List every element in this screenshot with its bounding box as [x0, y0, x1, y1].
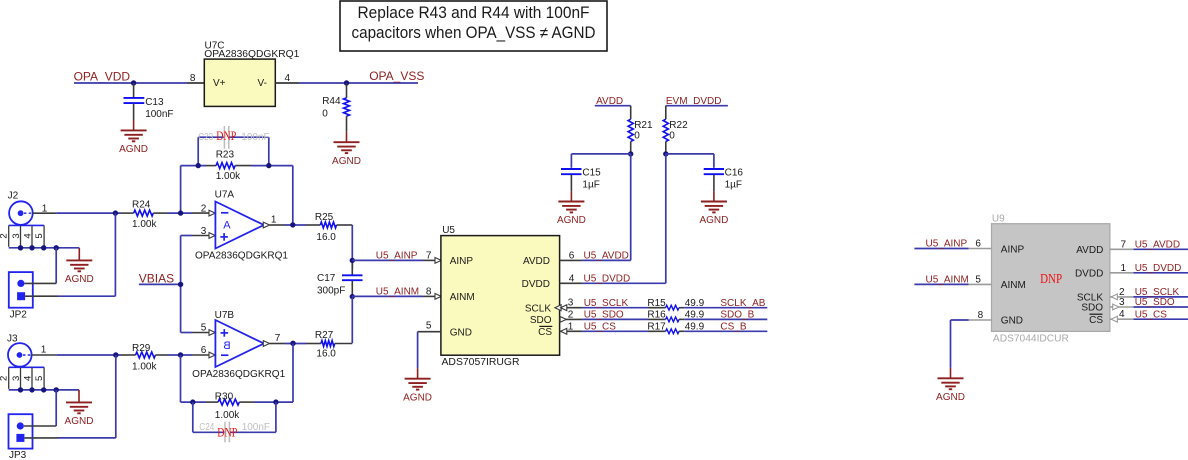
node OPA_VSS junction [344, 80, 349, 85]
svg-text:100nF: 100nF [145, 109, 173, 120]
node C17 top junction [350, 258, 355, 263]
wire AVDD to U5 pin6 [630, 154, 632, 261]
svg-text:U5: U5 [442, 225, 455, 236]
svg-text:SDO_B: SDO_B [720, 310, 754, 321]
svg-text:U5_SDO: U5_SDO [1135, 297, 1175, 308]
svg-text:7: 7 [1121, 239, 1127, 250]
svg-text:U7A: U7A [215, 189, 235, 200]
wire R30 row left [181, 401, 207, 403]
pin name GND of U5 [450, 327, 472, 338]
svg-text:8: 8 [426, 286, 432, 297]
svg-text:AGND: AGND [119, 144, 148, 155]
svg-text:OPA2836QDGKRQ1: OPA2836QDGKRQ1 [192, 369, 285, 380]
pin 8 lead of U7C [187, 73, 204, 84]
connector J3 shield cells [0, 367, 45, 389]
svg-text:OPA2836QDGKRQ1: OPA2836QDGKRQ1 [204, 49, 299, 60]
pin name SCLK of U5 [525, 303, 551, 314]
wire C24 loop right [275, 402, 277, 432]
svg-text:U5_AINP: U5_AINP [376, 251, 418, 262]
svg-text:U5_SDO: U5_SDO [584, 310, 624, 321]
pin 1 of J2 [33, 203, 57, 214]
node R21 junction [628, 151, 633, 156]
wire AVDD stub [595, 105, 631, 107]
svg-text:R15: R15 [647, 298, 666, 309]
net label OPA_VSS [369, 69, 424, 83]
net label EVM_DVDD [666, 96, 722, 107]
wire R25 to AINP node [351, 225, 353, 260]
node J2 shield dots [18, 245, 59, 250]
svg-text:8: 8 [190, 73, 196, 84]
svg-text:6: 6 [201, 345, 207, 356]
svg-text:R25: R25 [315, 212, 334, 223]
pin 4 of U5 [560, 273, 583, 284]
capacitor C13 [124, 83, 174, 120]
svg-text:B: B [223, 340, 230, 352]
wire OPA_VDD rail [74, 82, 187, 84]
pin name AINM of U5 [450, 292, 475, 303]
resistor R25 [306, 212, 352, 243]
wire EVM_DVDD stub [666, 105, 728, 107]
wire U5_SCLK row [582, 307, 648, 309]
net label U5_SDO right [1135, 297, 1175, 308]
svg-text:CS: CS [538, 327, 552, 338]
svg-text:1: 1 [271, 214, 277, 225]
svg-text:R30: R30 [215, 392, 234, 403]
resistor R27 [306, 330, 336, 359]
svg-text:1: 1 [1121, 263, 1127, 274]
svg-text:R27: R27 [315, 330, 334, 341]
wire R23 row right [252, 165, 293, 167]
pin 5 of U5 GND [418, 321, 441, 332]
svg-text:GND: GND [450, 327, 472, 338]
pin 1 of U5 CS [560, 321, 583, 334]
net label AVDD [596, 96, 623, 107]
svg-text:3: 3 [568, 298, 574, 309]
wire to U7A pin3 [181, 235, 192, 237]
pin name SDO of U5 [530, 315, 552, 326]
capacitor C17 [317, 262, 363, 297]
wire C23 loop right [268, 137, 270, 165]
svg-text:AGND: AGND [936, 392, 965, 403]
pin name AINM of U9 [1001, 280, 1026, 291]
net label U5_CS [584, 322, 617, 333]
pin 1 output of U7A [263, 214, 285, 228]
capacitor C15 [561, 167, 601, 191]
wire U7B output [285, 343, 306, 345]
svg-text:A: A [223, 219, 231, 231]
node R23-C23 right junction [266, 163, 271, 168]
adc U5 [441, 225, 560, 368]
wire CS_B [684, 330, 767, 332]
svg-text:6: 6 [975, 239, 981, 250]
svg-text:VBIAS: VBIAS [139, 271, 174, 285]
svg-text:6: 6 [569, 250, 575, 261]
resistor R16 [647, 310, 704, 322]
ground AGND of J2 [65, 248, 94, 285]
node R22 junction [663, 151, 668, 156]
ground AGND of R44 [332, 132, 361, 167]
svg-text:U5_CS: U5_CS [584, 322, 617, 333]
svg-text:3: 3 [201, 226, 207, 237]
svg-text:0: 0 [669, 130, 675, 141]
svg-text:U5_AVDD: U5_AVDD [584, 251, 629, 262]
svg-text:U5_AVDD: U5_AVDD [1135, 240, 1180, 251]
pin 7 of U5 [423, 250, 441, 263]
svg-text:AGND: AGND [332, 156, 361, 167]
svg-text:OPA_VDD: OPA_VDD [74, 70, 131, 84]
svg-text:SCLK_AB: SCLK_AB [720, 298, 765, 309]
svg-text:CS_B: CS_B [720, 322, 746, 333]
pin 6 of U7B [192, 345, 215, 358]
svg-text:16.0: 16.0 [316, 348, 336, 359]
svg-text:U9: U9 [992, 214, 1005, 225]
resistor R44 [322, 83, 349, 132]
svg-text:GND: GND [1001, 316, 1023, 327]
svg-text:JP2: JP2 [10, 310, 28, 321]
svg-text:DNP: DNP [217, 425, 237, 440]
DNP marker of U9 [1040, 271, 1062, 286]
svg-text:2: 2 [0, 233, 10, 238]
svg-text:AGND: AGND [65, 416, 94, 427]
svg-text:4: 4 [285, 73, 291, 84]
connector J3 [7, 333, 32, 366]
svg-text:V-: V- [258, 78, 267, 89]
wire U5_AINM [352, 295, 423, 297]
svg-text:R21: R21 [634, 120, 653, 131]
wire SDO_B [684, 318, 767, 320]
svg-text:R23: R23 [216, 149, 235, 160]
svg-text:R24: R24 [132, 200, 151, 211]
pin 1 of U9 [1110, 263, 1134, 274]
pin 6 of U5 [560, 250, 583, 261]
svg-text:U5_AINP: U5_AINP [926, 239, 968, 250]
node J2-JP2 junction [113, 210, 118, 215]
op-amp power part U7C [204, 41, 299, 107]
DNP marker of C23 [216, 128, 236, 143]
net label U5_SCLK [584, 298, 629, 309]
node U7B output junction [290, 341, 295, 346]
svg-text:1: 1 [568, 321, 574, 332]
pin 8 of U9 [969, 310, 992, 321]
svg-text:U5_DVDD: U5_DVDD [1135, 263, 1182, 274]
pin 8 of U5 [423, 286, 441, 299]
wire VBIAS vertical [180, 236, 182, 333]
resistor R23 [206, 149, 252, 182]
svg-text:R22: R22 [669, 120, 688, 131]
wire U5_CS right [1134, 318, 1188, 320]
wire R21 to C15 [571, 154, 630, 168]
connector J2 [8, 191, 33, 225]
wire VBIAS stub [139, 283, 181, 285]
wire U5_CS row [582, 330, 648, 332]
capacitor C23 (DNP, ghost) [198, 126, 269, 149]
svg-text:1µF: 1µF [582, 179, 599, 190]
pin 1 of J3 [32, 345, 57, 356]
wire J3 shield bus [9, 389, 79, 391]
pin name AINP of U9 [1001, 244, 1025, 255]
pin name AINP of U5 [450, 256, 474, 267]
svg-text:5: 5 [201, 323, 207, 334]
pin 2 of U9 [1110, 287, 1134, 300]
svg-text:100nF: 100nF [241, 132, 269, 143]
svg-text:DNP: DNP [1040, 271, 1062, 286]
pin 3 of U7A [192, 226, 215, 239]
svg-text:OPA_VSS: OPA_VSS [369, 69, 424, 83]
svg-text:1.00k: 1.00k [132, 361, 157, 372]
svg-text:1.00k: 1.00k [215, 410, 240, 421]
ground AGND of C15 [557, 191, 586, 226]
svg-text:8: 8 [978, 310, 984, 321]
net label U5_AINM [376, 287, 419, 298]
svg-text:7: 7 [426, 250, 432, 261]
wire U5_AINM right stub [914, 283, 968, 285]
svg-text:1.00k: 1.00k [216, 171, 241, 182]
jumper JP2 [9, 272, 33, 321]
svg-text:V+: V+ [213, 78, 226, 89]
svg-text:5: 5 [34, 376, 45, 381]
pin 7 output of U7B [263, 333, 285, 346]
svg-text:J2: J2 [8, 191, 19, 202]
resistor R30 [206, 392, 254, 422]
svg-text:DVDD: DVDD [1075, 268, 1103, 279]
svg-text:2: 2 [201, 203, 207, 214]
pin name SDO of U9 [1081, 303, 1103, 314]
wire R29 to U7B pin6 [168, 354, 192, 356]
node OPA_VDD junction [131, 80, 136, 85]
svg-text:AGND: AGND [557, 215, 586, 226]
svg-text:SCLK: SCLK [525, 303, 551, 314]
pin 4 of U9 [1110, 309, 1134, 322]
svg-text:U5_AINM: U5_AINM [926, 275, 969, 286]
svg-text:2: 2 [568, 309, 574, 320]
net label U5_SDO [584, 310, 624, 321]
svg-text:3: 3 [1119, 297, 1125, 308]
net label CS_B [720, 322, 746, 333]
pin 7 of U9 [1110, 239, 1134, 250]
node U7A output junction [290, 222, 295, 227]
svg-text:C15: C15 [582, 167, 601, 178]
svg-text:7: 7 [275, 333, 281, 344]
svg-text:DVDD: DVDD [522, 279, 550, 290]
svg-text:AGND: AGND [699, 215, 728, 226]
pin 2 of U5 SDO [560, 309, 583, 322]
svg-text:SDO: SDO [530, 315, 552, 326]
wire feedback right vertical [292, 166, 294, 225]
connector J2 shield cells [0, 225, 45, 246]
wire U5_DVDD right [1134, 272, 1188, 274]
pin 3 of U5 SCLK [555, 298, 583, 311]
svg-text:4: 4 [23, 233, 34, 238]
net label SCLK_AB [720, 298, 765, 309]
pin name AVDD of U9 [1076, 245, 1103, 256]
svg-text:C16: C16 [725, 167, 744, 178]
svg-text:5: 5 [34, 233, 45, 238]
op-amp U7A [195, 189, 288, 261]
wire AINP node vertical [351, 260, 353, 269]
capacitor C16 [704, 167, 744, 191]
node R30-C24 left junction [190, 399, 195, 404]
resistor R15 [647, 298, 704, 310]
net label U5_AINM right [926, 275, 969, 286]
svg-text:AVDD: AVDD [523, 256, 550, 267]
svg-text:AGND: AGND [403, 392, 432, 403]
svg-text:3: 3 [11, 376, 22, 381]
wire JP2 pin2 to input [25, 213, 115, 296]
net label U5_AVDD right [1135, 240, 1180, 251]
note text line 1 [358, 4, 590, 22]
wire R23 row left [181, 165, 206, 167]
capacitor C24 (DNP, ghost) [199, 422, 270, 443]
svg-text:AINP: AINP [450, 256, 474, 267]
svg-text:5: 5 [426, 321, 432, 332]
pin name AVDD of U5 [523, 256, 550, 267]
wire C23 loop left [197, 137, 199, 165]
op-amp U7B [192, 310, 285, 380]
wire C24 loop bottom [193, 431, 276, 433]
svg-text:J3: J3 [7, 333, 18, 344]
net label VBIAS [139, 271, 174, 285]
svg-text:1µF: 1µF [725, 179, 742, 190]
wire U5_SDO row [582, 318, 648, 320]
svg-text:OPA2836QDGKRQ1: OPA2836QDGKRQ1 [195, 251, 288, 262]
wire C24 loop left [192, 402, 194, 432]
svg-text:5: 5 [975, 275, 981, 286]
wire U5_AINP right stub [914, 248, 968, 250]
svg-text:Replace R43 and R44 with 100nF: Replace R43 and R44 with 100nF [358, 4, 590, 22]
wire R27 to AINM node [335, 343, 353, 345]
svg-text:AINM: AINM [450, 292, 475, 303]
pin 3 of U9 [1110, 297, 1134, 310]
wire U5 GND to AGND [417, 332, 419, 369]
ground AGND of U9 [936, 368, 965, 403]
node R24 output junction [178, 210, 183, 215]
svg-text:C13: C13 [145, 97, 164, 108]
svg-text:capacitors when OPA_VSS ≠ AGND: capacitors when OPA_VSS ≠ AGND [352, 24, 596, 42]
pin 4 lead of U7C [275, 73, 299, 84]
net label U5_AINP [376, 251, 418, 262]
note box [340, 1, 607, 51]
wire R22 to C16 [666, 154, 714, 168]
jumper JP3 [9, 414, 33, 460]
net label SDO_B [720, 310, 754, 321]
svg-text:U5_CS: U5_CS [1135, 309, 1168, 320]
net label U5_DVDD right [1135, 263, 1182, 274]
svg-text:U7B: U7B [215, 310, 235, 321]
wire U5_AINP [352, 259, 423, 261]
wire R30 left vertical [180, 355, 182, 402]
net label U5_AINP right [926, 239, 968, 250]
pin 5 of U7B [192, 323, 215, 336]
note text line 2 [352, 24, 596, 42]
net label U5_DVDD [584, 274, 631, 285]
pin name GND of U9 [1001, 316, 1023, 327]
svg-text:16.0: 16.0 [316, 232, 336, 243]
node R30-C24 right junction [273, 399, 278, 404]
svg-text:CS: CS [1089, 315, 1103, 326]
node C17 bottom junction [350, 294, 355, 299]
net label OPA_VDD [74, 70, 131, 84]
pin name CS of U5 [538, 326, 552, 338]
svg-text:R17: R17 [647, 322, 666, 333]
wire J3 to R29 [56, 354, 121, 356]
svg-text:0: 0 [634, 130, 640, 141]
svg-text:C17: C17 [317, 273, 336, 284]
net label U5_AVDD [584, 251, 629, 262]
wire JP3 pin2 to input [24, 355, 115, 438]
svg-text:JP3: JP3 [9, 450, 27, 460]
svg-text:100nF: 100nF [242, 422, 270, 433]
pin 6 of U9 [969, 239, 992, 250]
wire J2 shield bus [9, 247, 80, 249]
svg-text:ADS7057IRUGR: ADS7057IRUGR [442, 357, 520, 368]
pin name CS of U9 [1089, 314, 1103, 326]
svg-text:0: 0 [322, 109, 328, 120]
svg-text:1: 1 [41, 345, 47, 356]
wire U5_SCLK right [1134, 296, 1188, 298]
svg-text:1.00k: 1.00k [132, 219, 157, 230]
svg-text:C23: C23 [198, 132, 213, 143]
wire U5_AVDD right [1134, 248, 1188, 250]
wire U9 GND [951, 320, 969, 368]
ground AGND of C16 [699, 191, 728, 226]
wire SCLK_AB [684, 307, 767, 309]
svg-text:U5_SCLK: U5_SCLK [584, 298, 629, 309]
node VBIAS junction [178, 282, 183, 287]
ground AGND of J3 [65, 390, 94, 427]
wire U5_AVDD row [582, 259, 630, 261]
svg-text:C24: C24 [199, 422, 214, 433]
svg-text:1: 1 [42, 203, 48, 214]
wire OPA_VSS rail [299, 82, 418, 84]
DNP marker of C24 [217, 425, 237, 440]
net label U5_SCLK right [1135, 287, 1180, 298]
ground AGND of C13 [119, 120, 148, 155]
wire JP2 pin1 to ground [25, 248, 57, 284]
wire AINM node vertical [351, 297, 353, 344]
wire to U7B pin5 [181, 332, 192, 334]
net label U5_CS right [1135, 309, 1168, 320]
wire R24 to U7A pin2 [167, 212, 192, 214]
pin name SCLK of U9 [1077, 293, 1103, 304]
wire DVDD to U5 pin4 [665, 154, 667, 283]
svg-text:4: 4 [1119, 309, 1125, 320]
svg-text:U5_AINM: U5_AINM [376, 287, 419, 298]
svg-text:AVDD: AVDD [1076, 245, 1103, 256]
resistor R29 [121, 343, 168, 372]
wire R30 right vertical [292, 343, 294, 402]
svg-text:SDO: SDO [1081, 303, 1103, 314]
svg-text:R16: R16 [647, 310, 666, 321]
svg-text:R29: R29 [132, 343, 151, 354]
svg-text:DNP: DNP [216, 128, 236, 143]
wire J2 to R24 [56, 212, 121, 214]
svg-text:R44: R44 [322, 96, 341, 107]
node R29 output junction [178, 352, 183, 357]
resistor R21 [628, 106, 653, 154]
wire U7A output [285, 224, 306, 226]
svg-text:ADS7044IDCUR: ADS7044IDCUR [993, 333, 1069, 344]
wire U5_SDO right [1134, 306, 1188, 308]
wire feedback left vertical [180, 166, 182, 214]
pin name DVDD of U9 [1075, 268, 1103, 279]
pin 5 of U9 [969, 275, 992, 286]
resistor R17 [647, 322, 704, 334]
wire C23 loop top [198, 136, 269, 138]
wire R30 row right [254, 401, 293, 403]
wire U5_DVDD row [582, 282, 665, 284]
pin name DVDD of U5 [522, 279, 550, 290]
svg-text:AINM: AINM [1001, 280, 1026, 291]
